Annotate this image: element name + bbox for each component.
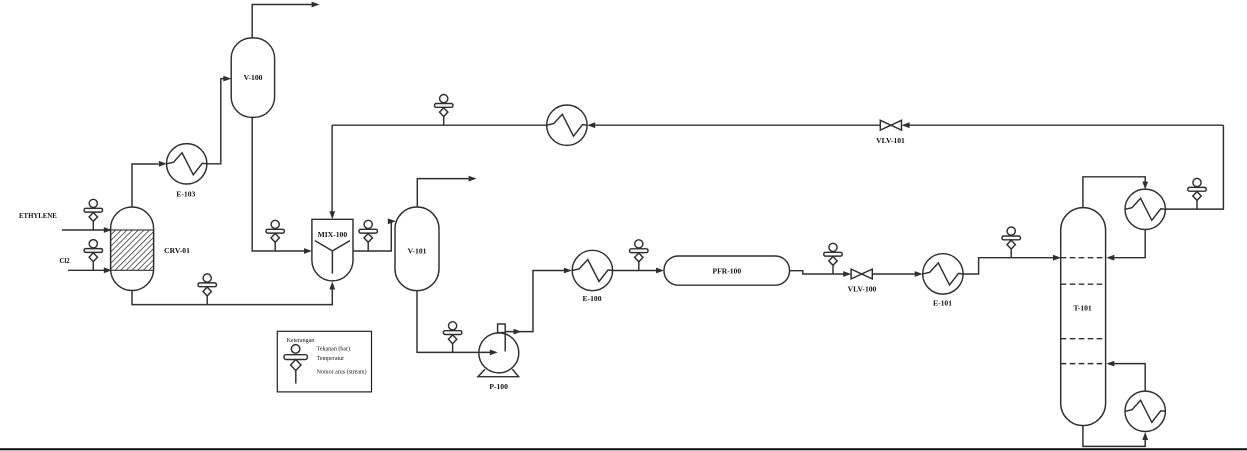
- wire CRV-01 bottom to MIX-100 bottom: [132, 282, 335, 305]
- bottom border line: [0, 448, 1247, 450]
- instrument on recycle line: [435, 95, 453, 126]
- svg-text:Tekanan (bar): Tekanan (bar): [317, 346, 350, 353]
- vessel V-101: [395, 207, 439, 291]
- wire E-100 to PFR-100: [613, 268, 664, 274]
- mixer MIX-100: [312, 219, 353, 281]
- wire recycle top line VLV-101 to exchanger: [587, 122, 880, 128]
- wire V-100 top outlet: [252, 2, 319, 38]
- wire V-101 bottom to P-100: [417, 291, 498, 356]
- svg-text:E-103: E-103: [176, 190, 195, 199]
- node Cl2 feed label: [60, 258, 71, 265]
- svg-text:PFR-100: PFR-100: [712, 266, 741, 275]
- legend box Keterangan: [277, 331, 371, 392]
- heat exchanger E-100: [572, 250, 612, 303]
- instrument on V-101 bottoms line: [443, 322, 461, 353]
- instrument on T-101 feed line: [1002, 227, 1020, 258]
- svg-text:MIX-100: MIX-100: [318, 230, 348, 239]
- instrument on MIX-100 outlet: [359, 220, 377, 251]
- svg-text:V-100: V-100: [244, 73, 263, 82]
- svg-text:T-101: T-101: [1073, 304, 1091, 313]
- svg-text:Temperatur: Temperatur: [317, 356, 345, 362]
- instrument on Cl2 feed: [84, 240, 102, 271]
- wire condenser reflux to T-101: [1106, 229, 1145, 260]
- instrument on condenser outlet: [1188, 178, 1206, 209]
- svg-text:Nomor arus (stream): Nomor arus (stream): [317, 369, 367, 376]
- column T-101: [1061, 208, 1106, 426]
- instrument on ethylene feed: [84, 199, 102, 230]
- svg-text:CRV-01: CRV-01: [164, 246, 190, 255]
- instrument on V-100 bottoms line: [266, 220, 284, 251]
- svg-text:P-100: P-100: [489, 382, 508, 391]
- wire condenser outlet up to recycle: [1165, 125, 1223, 209]
- svg-text:ETHYLENE: ETHYLENE: [19, 213, 57, 220]
- reboiler heat exchanger: [1125, 391, 1165, 431]
- svg-text:E-100: E-100: [583, 294, 602, 303]
- wire PFR-100 to VLV-100: [790, 271, 852, 277]
- wire reboiler return to T-101: [1106, 361, 1145, 391]
- instrument on E-100 outlet: [630, 240, 648, 271]
- wire ethylene feed line: [62, 227, 112, 233]
- svg-text:V-101: V-101: [408, 246, 427, 255]
- svg-text:VLV-101: VLV-101: [876, 136, 905, 145]
- recycle cooler heat exchanger: [547, 105, 587, 145]
- svg-text:Cl2: Cl2: [60, 258, 71, 265]
- vessel V-100: [231, 38, 274, 118]
- wire V-101 top outlet: [417, 176, 476, 207]
- pump P-100: [478, 324, 519, 391]
- wire VLV-100 to E-101: [872, 271, 922, 277]
- reactor PFR-100: [664, 256, 790, 285]
- wire Cl2 feed line: [68, 267, 112, 273]
- wire T-101 top to condenser: [1083, 177, 1148, 208]
- svg-text:E-101: E-101: [933, 298, 952, 307]
- wire recycle line down into MIX-100 top: [329, 125, 335, 219]
- svg-text:Keterangan: Keterangan: [287, 338, 315, 344]
- instrument on CRV-01 bottoms line: [198, 274, 216, 305]
- wire T-101 bottoms to reboiler: [1083, 426, 1148, 447]
- wire recycle top line exchanger to MIX-100 corner: [332, 124, 547, 126]
- wire MIX-100 outlet to V-101: [353, 218, 396, 251]
- svg-text:VLV-100: VLV-100: [848, 285, 877, 294]
- instrument on PFR-100 outlet: [824, 243, 842, 274]
- wire CRV-01 top to E-103: [132, 161, 167, 208]
- wire V-100 bottom to MIX-100: [252, 117, 312, 254]
- wire recycle top line right of VLV-101: [902, 122, 1224, 128]
- reactor CRV-01: [111, 207, 190, 291]
- wire E-103 to V-100: [207, 76, 232, 164]
- condenser heat exchanger: [1125, 189, 1165, 229]
- valve VLV-100: [848, 269, 877, 293]
- heat exchanger E-103: [167, 144, 207, 199]
- wire P-100 outlet to E-100: [505, 268, 572, 335]
- heat exchanger E-101: [923, 254, 963, 308]
- wire E-101 to T-101 feed: [963, 255, 1061, 274]
- node ETHYLENE feed label: [19, 213, 57, 220]
- valve VLV-101: [876, 120, 905, 145]
